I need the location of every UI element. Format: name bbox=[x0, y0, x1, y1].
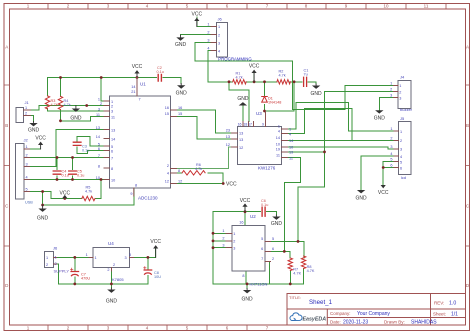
svg-text:17: 17 bbox=[248, 123, 252, 127]
svg-text:4.7k: 4.7k bbox=[236, 76, 243, 80]
svg-text:14: 14 bbox=[111, 137, 115, 141]
svg-text:1: 1 bbox=[26, 145, 28, 149]
svg-text:5: 5 bbox=[111, 145, 113, 149]
wire R6 right to VCC dot bbox=[208, 173, 223, 184]
svg-text:ADC1230: ADC1230 bbox=[138, 196, 158, 201]
svg-text:4.7K: 4.7K bbox=[293, 272, 301, 276]
op IC U1 body bbox=[110, 82, 171, 201]
VCC symbol U2 x245 bbox=[240, 198, 251, 212]
svg-text:8: 8 bbox=[178, 169, 180, 173]
svg-text:U2: U2 bbox=[250, 214, 256, 219]
svg-text:11: 11 bbox=[96, 113, 100, 117]
svg-text:8: 8 bbox=[98, 165, 100, 169]
wire VCC mid stem bbox=[253, 72, 255, 82]
svg-text:7u: 7u bbox=[304, 73, 308, 77]
svg-text:B: B bbox=[466, 123, 469, 128]
wire header pin3 programming run bbox=[195, 43, 394, 110]
svg-text:0.1u: 0.1u bbox=[261, 203, 268, 207]
svg-text:GND: GND bbox=[356, 196, 368, 202]
wire J3 pin3 gnd bbox=[379, 98, 393, 111]
wire U2 top pin stub bbox=[244, 212, 246, 226]
svg-text:2: 2 bbox=[100, 102, 102, 106]
svg-text:1N4148: 1N4148 bbox=[268, 101, 281, 105]
svg-text:2: 2 bbox=[55, 262, 57, 266]
svg-text:12: 12 bbox=[178, 179, 182, 183]
wire C4 stubs bbox=[56, 158, 58, 180]
svg-text:3: 3 bbox=[390, 145, 392, 149]
svg-text:2: 2 bbox=[233, 240, 235, 244]
svg-text:6: 6 bbox=[261, 247, 263, 251]
wire U2 gnd drop bbox=[246, 284, 248, 289]
wire J2 pin4 row to U1 pin10 bbox=[30, 179, 105, 181]
wire D1 net vertical bbox=[264, 82, 266, 111]
svg-text:4.7k: 4.7k bbox=[85, 190, 92, 194]
svg-text:6: 6 bbox=[390, 164, 392, 168]
svg-text:8: 8 bbox=[111, 167, 113, 171]
wire C5 stubs bbox=[72, 158, 74, 180]
resistor R1 bbox=[233, 72, 246, 85]
junction dots R7 R8 tops bbox=[297, 240, 300, 243]
svg-text:2: 2 bbox=[25, 111, 27, 115]
svg-text:1: 1 bbox=[218, 25, 220, 29]
svg-text:14: 14 bbox=[96, 135, 100, 139]
svg-text:4.7K: 4.7K bbox=[307, 269, 315, 273]
wire VCC rail top-left bbox=[48, 78, 157, 96]
svg-text:K7805: K7805 bbox=[112, 277, 124, 282]
wire J2 pin5 row bbox=[30, 191, 52, 193]
wire J4 pin4 gnd bbox=[361, 156, 394, 190]
junction dots vcc rail bbox=[59, 76, 62, 79]
svg-text:Sheet_1: Sheet_1 bbox=[309, 299, 333, 306]
svg-text:2: 2 bbox=[222, 237, 224, 241]
resistor R5 bbox=[82, 186, 95, 201]
svg-text:Date:: Date: bbox=[330, 320, 341, 325]
svg-text:4.7k: 4.7k bbox=[279, 74, 286, 78]
wire R4 bottom to U1 pin11 bbox=[61, 110, 105, 121]
wire U2 pin7 drop bbox=[270, 261, 271, 284]
wire header pin4 to R1 left bbox=[208, 51, 233, 82]
svg-text:10: 10 bbox=[289, 146, 293, 150]
connector J2 (5 pin) bbox=[15, 138, 33, 205]
wire U2 left pin stubs from rail bbox=[213, 233, 226, 247]
wire J1 pin2 to gnd bbox=[31, 115, 34, 121]
svg-text:5: 5 bbox=[26, 188, 28, 192]
wire J5 pin1 to U4 pin1 bbox=[57, 256, 90, 258]
svg-text:1: 1 bbox=[400, 130, 402, 134]
svg-text:12: 12 bbox=[226, 143, 230, 147]
svg-text:2: 2 bbox=[272, 257, 274, 261]
svg-text:VCC: VCC bbox=[35, 136, 46, 142]
svg-text:GND: GND bbox=[175, 42, 187, 48]
svg-text:HX711GN: HX711GN bbox=[250, 282, 268, 287]
svg-text:EasyEDA: EasyEDA bbox=[303, 317, 327, 323]
wire J1 pin1 to U1 pin2 row bbox=[31, 106, 104, 110]
svg-text:10: 10 bbox=[383, 4, 389, 9]
svg-text:10: 10 bbox=[276, 143, 280, 147]
wire U2 VCC stem bbox=[244, 206, 246, 212]
connector J6 programming header bbox=[207, 17, 252, 62]
U4 pins bbox=[89, 257, 133, 271]
svg-text:VCC: VCC bbox=[249, 64, 260, 70]
GND symbol J4 pin4 x361 bbox=[356, 190, 368, 202]
svg-text:5: 5 bbox=[261, 237, 263, 241]
capacitor C8 polarized bbox=[144, 267, 162, 279]
svg-text:7: 7 bbox=[98, 154, 100, 158]
wire U2 vcc rail left + down + bottom bbox=[213, 212, 304, 284]
svg-text:5: 5 bbox=[98, 143, 100, 147]
wire U4 pin2 gnd stub bbox=[110, 267, 112, 288]
wire gnd row to U1 bottom pin bbox=[43, 188, 134, 205]
svg-text:GND: GND bbox=[242, 297, 254, 303]
svg-text:SUPPLY: SUPPLY bbox=[54, 269, 70, 274]
svg-text:8: 8 bbox=[242, 274, 244, 278]
svg-text:13: 13 bbox=[239, 132, 243, 136]
svg-text:19: 19 bbox=[276, 148, 280, 152]
svg-text:2: 2 bbox=[390, 136, 392, 140]
GND symbol flipped above U3 x242.9 bbox=[237, 96, 249, 106]
svg-text:15: 15 bbox=[178, 112, 182, 116]
svg-text:8: 8 bbox=[135, 184, 137, 188]
U3 right pins bbox=[282, 129, 288, 158]
svg-text:GND: GND bbox=[237, 96, 249, 102]
wire J2 pin1 VCC bbox=[30, 148, 41, 150]
GND symbol under U2 x247 bbox=[242, 289, 254, 303]
capacitor C2 bbox=[157, 66, 164, 81]
svg-text:GND: GND bbox=[106, 299, 118, 305]
VCC symbol mid rail x254 bbox=[249, 64, 260, 82]
U3 top pins bbox=[243, 111, 265, 127]
svg-text:11: 11 bbox=[424, 4, 429, 9]
svg-text:1: 1 bbox=[399, 84, 401, 88]
svg-text:2: 2 bbox=[390, 88, 392, 92]
svg-text:7: 7 bbox=[261, 257, 263, 261]
svg-text:10: 10 bbox=[111, 178, 115, 182]
svg-text:4: 4 bbox=[400, 155, 402, 159]
GND symbol under U1 x42.6 bbox=[37, 205, 49, 222]
svg-text:1: 1 bbox=[390, 127, 392, 131]
svg-text:4.7k: 4.7k bbox=[64, 103, 71, 107]
svg-text:3: 3 bbox=[400, 148, 402, 152]
svg-text:5: 5 bbox=[390, 158, 392, 162]
svg-text:3: 3 bbox=[207, 39, 209, 43]
U2 left pin numbers bbox=[226, 233, 232, 247]
GND symbol under C1 x316 bbox=[311, 84, 323, 97]
svg-text:16: 16 bbox=[165, 106, 169, 110]
wire C1 right to gnd bbox=[308, 82, 316, 84]
wire VCC rail after C2 to GND corner bbox=[163, 78, 181, 84]
svg-text:U3: U3 bbox=[256, 111, 262, 116]
wire J5 pin2 down to bottom rail bbox=[57, 264, 148, 284]
wire U3 pin4 route to J4 pin2 bbox=[288, 109, 353, 141]
VCC symbol top-left of header bbox=[192, 12, 203, 27]
resistor R2 bbox=[277, 70, 291, 85]
svg-text:6: 6 bbox=[272, 247, 274, 251]
svg-text:6: 6 bbox=[400, 166, 402, 170]
connector J4 (6 pin lcd) bbox=[390, 116, 410, 180]
svg-text:2: 2 bbox=[207, 31, 209, 35]
wire U3 pin1 route to J4 pin1 bbox=[288, 103, 394, 132]
svg-text:1: 1 bbox=[207, 22, 209, 26]
svg-text:VCC: VCC bbox=[132, 64, 143, 70]
svg-text:9: 9 bbox=[130, 192, 132, 196]
svg-text:REV:: REV: bbox=[434, 301, 444, 306]
svg-text:GND: GND bbox=[176, 91, 188, 97]
wire U3 pin14 row to J4 pin2 bbox=[288, 139, 394, 141]
GND symbol under U4 x111 bbox=[106, 288, 118, 305]
wire U1 pin12 to VCC label bbox=[177, 183, 224, 185]
resistor R6 bbox=[182, 163, 205, 175]
junction dots bottom section bbox=[73, 256, 76, 259]
svg-text:0.1u: 0.1u bbox=[157, 70, 164, 74]
connector J5 supply (2 pin) bbox=[44, 246, 69, 274]
wire C8 stubs bbox=[147, 257, 149, 284]
junction dots C4 C5 bbox=[56, 156, 59, 159]
wire vcc-r5 branch bbox=[51, 192, 82, 199]
svg-text:2: 2 bbox=[107, 268, 109, 272]
svg-text:16: 16 bbox=[178, 106, 182, 110]
wire U1 pin16 to U3 pin13 bbox=[177, 110, 232, 133]
VCC symbol flipped J4 x383 bbox=[378, 185, 389, 196]
svg-text:2: 2 bbox=[400, 139, 402, 143]
svg-text:1: 1 bbox=[46, 256, 48, 260]
wire R4 top feed bbox=[60, 78, 62, 97]
GND symbol rail right x181 bbox=[176, 84, 188, 97]
svg-text:Sheet:: Sheet: bbox=[433, 312, 446, 317]
svg-text:16: 16 bbox=[239, 221, 243, 225]
svg-text:4.7k: 4.7k bbox=[51, 103, 58, 107]
svg-text:1/1: 1/1 bbox=[451, 312, 458, 318]
IC U4 body (regulator) bbox=[93, 241, 129, 282]
svg-text:3: 3 bbox=[26, 163, 28, 167]
wire R1-R2 link bbox=[246, 81, 277, 83]
wire U2 bottom pin stub bbox=[245, 271, 247, 284]
svg-text:12: 12 bbox=[165, 179, 169, 183]
junction dots U2 left pins bbox=[212, 232, 215, 235]
wire gnd-flip stem to U3 top pin a bbox=[242, 106, 244, 122]
svg-text:VCC: VCC bbox=[378, 190, 389, 196]
svg-text:13: 13 bbox=[96, 126, 100, 130]
svg-text:VCC: VCC bbox=[150, 239, 161, 245]
svg-text:VCC: VCC bbox=[240, 198, 251, 204]
GND symbol J3 pin3 x390 bbox=[374, 110, 386, 121]
svg-text:TITLE:: TITLE: bbox=[289, 295, 301, 300]
IC U2 body bbox=[232, 214, 268, 287]
svg-text:10: 10 bbox=[96, 176, 100, 180]
wire U2 pin5 row to R8 bbox=[271, 241, 305, 258]
junction dots pin5 row / gnd bbox=[41, 190, 44, 193]
svg-text:USB: USB bbox=[25, 201, 33, 205]
wire U4 pin3 to VCC riser bbox=[134, 247, 156, 258]
svg-text:VCC: VCC bbox=[192, 12, 203, 18]
svg-text:4.7k: 4.7k bbox=[195, 167, 202, 171]
svg-text:4: 4 bbox=[167, 172, 169, 176]
svg-text:2: 2 bbox=[46, 263, 48, 267]
wire J4 pin5 pin6 vcc bbox=[383, 162, 394, 186]
svg-text:4: 4 bbox=[289, 132, 291, 136]
connector J3 (3 pin buzzer) bbox=[390, 75, 412, 112]
svg-text:6: 6 bbox=[111, 149, 113, 153]
svg-text:1.0: 1.0 bbox=[449, 301, 456, 307]
svg-text:1: 1 bbox=[95, 256, 97, 260]
svg-text:1: 1 bbox=[289, 128, 291, 132]
svg-text:13: 13 bbox=[111, 128, 115, 132]
svg-text:7: 7 bbox=[111, 156, 113, 160]
svg-text:3: 3 bbox=[98, 107, 100, 111]
svg-text:470U: 470U bbox=[81, 277, 90, 281]
svg-text:11: 11 bbox=[111, 115, 115, 119]
svg-text:9: 9 bbox=[262, 123, 264, 127]
svg-text:3: 3 bbox=[222, 244, 224, 248]
svg-text:5: 5 bbox=[400, 160, 402, 164]
wire U1 pin8 to R6 bbox=[177, 172, 183, 174]
svg-text:3: 3 bbox=[111, 110, 113, 114]
svg-text:14: 14 bbox=[131, 85, 135, 89]
capacitor C1 bbox=[304, 69, 309, 87]
wire J2 pin3 up to U1 pin13 bbox=[30, 130, 105, 167]
IC U3 body bbox=[238, 111, 282, 171]
EasyEDA logo bbox=[290, 313, 326, 323]
svg-text:1: 1 bbox=[222, 229, 224, 233]
svg-text:0.1u: 0.1u bbox=[62, 174, 69, 178]
svg-text:A: A bbox=[5, 45, 8, 50]
junction dot D1 bottom bbox=[263, 110, 266, 113]
junction dot R4 bottom bbox=[59, 119, 62, 122]
resistor R7 bbox=[288, 258, 301, 276]
svg-text:3: 3 bbox=[129, 253, 131, 257]
VCC symbol R5 x64.8 bbox=[60, 191, 71, 199]
wire R3 bottom to U1 pin3 row bbox=[48, 109, 105, 111]
svg-text:B: B bbox=[5, 123, 8, 128]
wire C6 right to gnd bbox=[267, 212, 277, 215]
svg-text:GND: GND bbox=[70, 116, 82, 122]
svg-text:1: 1 bbox=[278, 125, 280, 129]
resistor R8 bbox=[301, 256, 314, 273]
svg-text:23: 23 bbox=[226, 129, 230, 133]
svg-text:16: 16 bbox=[238, 123, 242, 127]
U3 left pins bbox=[232, 133, 238, 147]
svg-text:1: 1 bbox=[233, 232, 235, 236]
wire C3 loop top (U1 pin5) bbox=[77, 137, 104, 147]
svg-text:3: 3 bbox=[125, 256, 127, 260]
svg-text:3: 3 bbox=[390, 94, 392, 98]
svg-text:2: 2 bbox=[167, 164, 169, 168]
wire J2 pin2 row to U1 pin7 bbox=[30, 157, 105, 159]
svg-text:1: 1 bbox=[111, 100, 113, 104]
GND symbol under C6 x276.4 bbox=[271, 215, 283, 227]
svg-text:2: 2 bbox=[218, 33, 220, 37]
GND symbol J1 pin2 bbox=[28, 122, 40, 134]
svg-text:15: 15 bbox=[165, 112, 169, 116]
svg-text:11: 11 bbox=[276, 154, 280, 158]
svg-text:2: 2 bbox=[26, 154, 28, 158]
svg-text:2: 2 bbox=[111, 104, 113, 108]
wire R8 bottom stub bbox=[303, 269, 305, 284]
U1 left pins bbox=[104, 101, 110, 180]
svg-text:1: 1 bbox=[55, 255, 57, 259]
resistor R3 bbox=[45, 96, 57, 109]
svg-text:SHAHIDAS: SHAHIDAS bbox=[411, 320, 437, 326]
svg-text:Drawn By:: Drawn By: bbox=[384, 320, 405, 325]
wire gnd drop x42.6 bbox=[42, 192, 44, 206]
svg-text:6: 6 bbox=[98, 147, 100, 151]
svg-text:buzzer: buzzer bbox=[400, 107, 413, 112]
svg-text:4: 4 bbox=[218, 49, 220, 53]
svg-text:10U: 10U bbox=[154, 275, 161, 279]
capacitor C6 bbox=[261, 199, 268, 216]
wire U2 vcc rail right to C6 bbox=[245, 211, 261, 213]
svg-text:3: 3 bbox=[233, 247, 235, 251]
svg-text:PROGRAMMING: PROGRAMMING bbox=[218, 57, 252, 62]
svg-text:1: 1 bbox=[98, 98, 100, 102]
svg-text:4: 4 bbox=[207, 47, 209, 51]
svg-text:5: 5 bbox=[272, 237, 274, 241]
svg-text:3: 3 bbox=[218, 41, 220, 45]
wire R5 right to pin10 row bbox=[95, 180, 101, 199]
wire U3 pin11 route to U2 pin6 bbox=[284, 158, 300, 252]
svg-text:Your Company: Your Company bbox=[357, 311, 390, 317]
svg-text:4: 4 bbox=[390, 152, 392, 156]
svg-text:4: 4 bbox=[26, 176, 28, 180]
junction dot R6/VCC bbox=[222, 182, 225, 185]
svg-text:GND: GND bbox=[311, 91, 323, 97]
svg-text:Company:: Company: bbox=[330, 311, 351, 316]
svg-text:GND: GND bbox=[37, 216, 49, 222]
junction dot J4 vcc bbox=[382, 166, 385, 169]
junction dots R1 R2 rail bbox=[228, 80, 231, 83]
wire U3 pin10 row to J4 pin3 bbox=[288, 147, 394, 149]
svg-text:13: 13 bbox=[226, 135, 230, 139]
svg-text:11: 11 bbox=[289, 157, 293, 161]
capacitor C3 bbox=[73, 142, 89, 152]
svg-text:19: 19 bbox=[289, 151, 293, 155]
svg-text:2: 2 bbox=[113, 263, 115, 267]
svg-text:12: 12 bbox=[239, 146, 243, 150]
VCC symbol main rail x137 bbox=[132, 64, 143, 78]
svg-text:A: A bbox=[466, 45, 469, 50]
svg-text:7: 7 bbox=[139, 98, 141, 102]
wire R7 bottom stub bbox=[289, 271, 291, 284]
wire D1 dot to riser x294 bbox=[265, 82, 295, 111]
svg-text:KW1276: KW1276 bbox=[258, 166, 276, 171]
svg-text:1: 1 bbox=[86, 253, 88, 257]
svg-text:4: 4 bbox=[278, 129, 280, 133]
svg-text:0.1u: 0.1u bbox=[82, 149, 89, 153]
wire U1 pin1 drop from rail bbox=[101, 78, 104, 102]
wire U3 pin19 row to J3 pin2 net bbox=[288, 92, 394, 242]
wire R1 left branch down to U3 top pin bbox=[229, 82, 249, 122]
U1 right pins bbox=[171, 110, 177, 183]
U2 right pins bbox=[265, 241, 271, 261]
U1 bottom pin bbox=[130, 184, 137, 197]
junction dots U2 bottom rail bbox=[246, 283, 249, 286]
svg-text:2: 2 bbox=[399, 90, 401, 94]
svg-text:GND: GND bbox=[28, 128, 40, 134]
svg-text:GND: GND bbox=[271, 221, 283, 227]
capacitor C7 polarized bbox=[71, 268, 91, 280]
svg-text:2020-11-23: 2020-11-23 bbox=[343, 320, 368, 326]
svg-text:18: 18 bbox=[243, 123, 247, 127]
svg-text:VCC: VCC bbox=[226, 182, 237, 188]
svg-text:lcd: lcd bbox=[401, 175, 406, 180]
svg-text:1: 1 bbox=[25, 106, 27, 110]
svg-text:0.1u: 0.1u bbox=[77, 174, 84, 178]
connector J1 (2 pin) bbox=[16, 100, 31, 123]
capacitor C5 bbox=[69, 170, 85, 178]
svg-text:GND: GND bbox=[374, 115, 386, 121]
wire C3 loop bottom (U1 pin6) bbox=[77, 147, 104, 154]
capacitor C4 bbox=[53, 170, 69, 178]
svg-text:U1: U1 bbox=[140, 82, 146, 87]
